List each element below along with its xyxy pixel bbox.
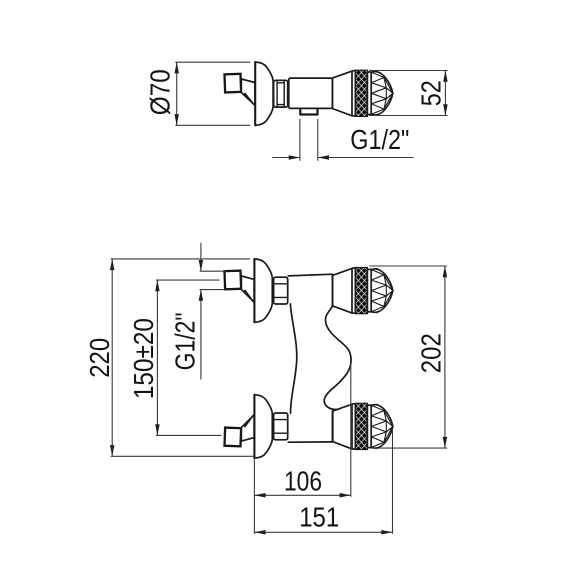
svg-text:G1/2": G1/2" — [350, 124, 409, 155]
svg-text:52: 52 — [415, 80, 446, 106]
svg-text:202: 202 — [415, 333, 446, 373]
svg-text:106: 106 — [284, 465, 322, 496]
svg-text:G1/2": G1/2" — [170, 312, 201, 370]
svg-text:150±20: 150±20 — [128, 318, 159, 399]
svg-text:220: 220 — [84, 338, 115, 378]
svg-text:Ø70: Ø70 — [145, 69, 176, 115]
svg-text:151: 151 — [299, 502, 339, 533]
